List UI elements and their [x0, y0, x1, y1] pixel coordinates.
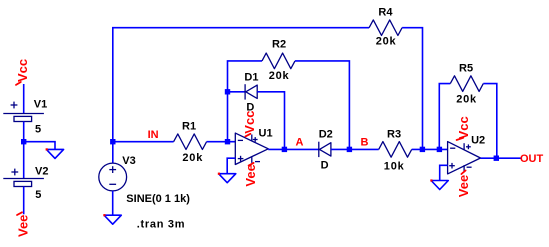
U2 Vcc pin plus mark	[466, 144, 471, 149]
U1 inverting input mark	[238, 139, 243, 141]
wire U1 non-inverting to ground	[227, 158, 235, 174]
ground U1	[218, 173, 236, 183]
net label anchor tick Vcc left	[16, 82, 21, 85]
resistor R1	[174, 134, 207, 150]
resistor R2	[262, 53, 295, 69]
U1 non-inverting input mark	[238, 156, 244, 162]
wire U1 output to D2	[268, 148, 319, 150]
svg-text:10k: 10k	[384, 161, 405, 173]
U1 Vcc pin plus mark	[253, 137, 258, 142]
svg-text:D1: D1	[244, 72, 258, 84]
U2 inverting input mark	[450, 147, 455, 149]
wire inverting node riser to R2	[228, 61, 263, 142]
wire IN to R1	[113, 141, 174, 143]
svg-text:.tran 3m: .tran 3m	[137, 219, 185, 231]
svg-text:R2: R2	[272, 38, 286, 50]
svg-text:V2: V2	[35, 166, 48, 178]
wire R4 to inverting node drop	[402, 28, 422, 150]
wire D1 anode to node A riser	[257, 92, 284, 150]
wire R5 right leg	[483, 84, 497, 159]
resistor R3	[379, 142, 412, 158]
net label anchor tick Vee U1	[249, 163, 254, 166]
svg-text:20k: 20k	[269, 70, 290, 82]
svg-text:R3: R3	[387, 128, 401, 140]
svg-text:U2: U2	[471, 135, 485, 147]
battery V2	[3, 169, 44, 187]
svg-text:Vcc: Vcc	[456, 116, 471, 139]
svg-text:D2: D2	[319, 128, 333, 140]
svg-text:A: A	[296, 137, 304, 149]
op-amp U2	[448, 142, 481, 174]
battery V1	[3, 102, 44, 122]
U2 Vee pin minus mark	[467, 166, 472, 168]
junction node IN	[110, 139, 115, 144]
net label anchor tick Vcc U2	[457, 138, 464, 140]
junction D1 cathode node	[225, 89, 230, 94]
wire mid node to ground	[24, 142, 55, 150]
diode D2	[319, 142, 331, 157]
wire R2 to node B riser	[295, 61, 349, 149]
U1 Vee pin minus mark	[255, 161, 260, 163]
wire V3 to ground	[112, 191, 114, 215]
svg-text:Vee: Vee	[243, 164, 258, 186]
svg-text:OUT: OUT	[520, 153, 544, 165]
svg-text:5: 5	[35, 123, 41, 135]
voltage source V3	[99, 163, 127, 191]
svg-text:20k: 20k	[376, 36, 397, 48]
svg-text:20k: 20k	[456, 94, 477, 106]
svg-text:V1: V1	[34, 98, 47, 110]
resistor R5	[450, 76, 483, 92]
wire R3 to U2 inverting input	[412, 148, 448, 150]
junction R4 branch node	[420, 147, 425, 152]
svg-text:Vcc: Vcc	[242, 111, 257, 134]
junction node OUT	[494, 156, 499, 161]
svg-text:20k: 20k	[182, 152, 203, 164]
diode D1	[245, 84, 257, 99]
op-amp U1	[235, 133, 268, 164]
svg-text:R1: R1	[182, 121, 196, 133]
U2 non-inverting input mark	[449, 163, 455, 169]
wire R5 left leg	[439, 84, 450, 150]
wire top branch to R4	[113, 28, 369, 142]
junction R5 branch node	[437, 147, 442, 152]
svg-text:Vee: Vee	[456, 175, 471, 197]
wire Vcc to V1	[23, 84, 25, 114]
junction node B	[347, 147, 352, 152]
ground U2	[430, 179, 448, 189]
svg-text:SINE(0 1 1k): SINE(0 1 1k)	[126, 193, 190, 205]
svg-text:U1: U1	[259, 128, 273, 140]
svg-text:Vcc: Vcc	[15, 59, 30, 82]
wire to D1 cathode	[228, 91, 246, 93]
ground supply mid	[46, 148, 64, 158]
wire V1 to mid node	[23, 122, 25, 142]
svg-text:5: 5	[35, 189, 41, 201]
svg-text:R5: R5	[459, 63, 473, 75]
junction supply mid node	[21, 139, 26, 144]
svg-text:D: D	[321, 160, 329, 172]
wire U2 non-inverting to ground	[440, 165, 448, 180]
wire R1 to U1 inverting input	[207, 141, 236, 143]
junction U1 inverting node	[225, 139, 230, 144]
ground V3	[103, 214, 121, 224]
wire D2 anode to R3	[331, 148, 379, 150]
svg-text:B: B	[361, 137, 369, 149]
resistor R4	[369, 20, 402, 36]
svg-text:Vee: Vee	[15, 215, 30, 237]
wire V2 to Vee	[23, 187, 25, 215]
wire mid node to V2	[23, 142, 25, 179]
svg-text:IN: IN	[148, 129, 159, 141]
wire U2 output to OUT	[481, 157, 522, 159]
svg-text:V3: V3	[122, 155, 135, 167]
svg-text:R4: R4	[378, 7, 393, 19]
net label anchor tick Vee U2	[461, 170, 465, 174]
wire IN node to V3	[112, 142, 114, 163]
net label anchor tick Vcc U1	[245, 134, 250, 137]
net label anchor tick Vee left	[17, 212, 22, 215]
junction node A	[282, 147, 287, 152]
